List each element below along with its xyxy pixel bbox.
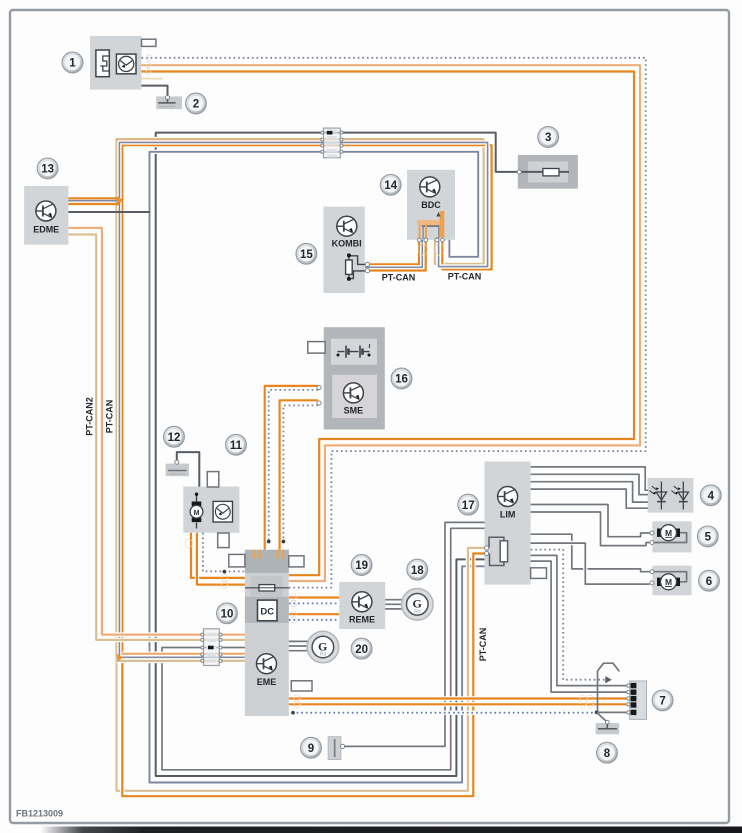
component 10/EME complex (229, 550, 312, 716)
wire: orange main rail LIM resistor around bottom-left-top-BDC (122, 145, 491, 796)
component 13 EDME box (24, 186, 68, 245)
svg-text:12: 12 (168, 432, 181, 444)
component 1 box (charge socket module) (90, 36, 156, 90)
badge 11 (226, 434, 247, 455)
junction arrow on left bundle (117, 654, 123, 662)
badge 4 (700, 485, 721, 506)
svg-text:19: 19 (355, 560, 368, 572)
badge 7 (652, 690, 673, 711)
motor5 icon + loop (650, 525, 687, 545)
comp11 motor icon (190, 493, 203, 529)
svg-text:4: 4 (708, 491, 715, 503)
component 6 motor box (652, 566, 691, 596)
svg-text:SME: SME (344, 406, 364, 416)
wire: dot to ground8 (597, 712, 629, 721)
component 11 box (183, 472, 239, 548)
svg-text:KOMBI: KOMBI (332, 239, 362, 249)
svg-text:15: 15 (300, 249, 313, 261)
badge 9 (301, 737, 322, 758)
wire: tan rail LIM resistor around bottom-left-top-BDC (117, 139, 485, 791)
wire: big loop orange inner (142, 72, 635, 576)
svg-text:7: 7 (659, 696, 665, 708)
EME top stubs (254, 550, 283, 559)
comp1 rotation icon (116, 54, 136, 74)
svg-text:8: 8 (604, 748, 611, 760)
badge 16 (391, 368, 412, 389)
ECU icons (36, 201, 56, 221)
badge 10 (217, 603, 238, 624)
comp1 meander icon (96, 50, 109, 77)
svg-text:PT-CAN: PT-CAN (105, 400, 115, 434)
EME DC box (258, 600, 278, 621)
component 16 SME outer box (308, 327, 385, 429)
component 2 ground box (156, 96, 182, 109)
wire: LIM to conn7 pin1 (531, 555, 629, 685)
SME battery symbol (337, 344, 371, 358)
svg-text:1: 1 (69, 58, 76, 70)
svg-text:PT-CAN2: PT-CAN2 (85, 397, 95, 436)
fuse3 internals (543, 169, 559, 176)
svg-text:BDC: BDC (421, 200, 441, 210)
wire: conn7 flap switch (598, 663, 620, 712)
wire: REME rows (289, 595, 339, 599)
wire: slate rail EME-conn10-left-top-BDC (119, 142, 487, 657)
wire: LIM to conn7 pin2 (531, 561, 629, 692)
comp4 diodes (650, 482, 689, 510)
wire: LIM dotted to flap arrow (531, 550, 607, 680)
svg-text:20: 20 (355, 644, 368, 656)
LIM resistor (485, 537, 508, 565)
component 5 motor box (652, 521, 691, 552)
connector 10 (201, 629, 222, 666)
svg-text:FB1213009: FB1213009 (16, 809, 63, 819)
svg-text:11: 11 (230, 440, 243, 452)
dashed terminal ellipses (146, 55, 150, 61)
wire: tan branch row to conn10/EME (117, 659, 245, 663)
svg-text:2: 2 (193, 99, 199, 111)
component 4 diode box (647, 478, 693, 513)
svg-text:DC: DC (260, 607, 274, 618)
badge 1 (62, 52, 83, 73)
KOMBI resistor (346, 253, 370, 281)
badge 3 (538, 127, 559, 148)
badge 19 (351, 555, 372, 576)
wire: big loop dotted (comp1 to EME via right side) (142, 58, 646, 588)
svg-text:EME: EME (257, 677, 277, 687)
connector top-center (321, 128, 343, 158)
badge 20 (351, 638, 372, 659)
svg-text:LIM: LIM (500, 510, 516, 520)
wire: comp11 dotted down to EME (203, 533, 245, 572)
svg-text:13: 13 (41, 164, 54, 176)
badge 18 (407, 559, 428, 580)
badge 2 (186, 93, 207, 114)
wire: comp11 orange pair down to EME (191, 533, 245, 578)
wire: SME pair 1 (265, 386, 318, 550)
wire: EDME dark to blue rail (68, 211, 150, 213)
svg-text:6: 6 (706, 576, 712, 588)
wire: LIM to motor5 t2 (531, 512, 650, 546)
wire: fuse3 link (518, 171, 569, 173)
motor6 icon + loop (650, 570, 687, 590)
svg-text:9: 9 (308, 743, 314, 755)
wire: BDC left group to KOMBI (367, 240, 419, 265)
svg-text:M: M (194, 510, 200, 517)
wire: SME pair 2 (280, 400, 318, 550)
badge 13 (37, 158, 58, 179)
badge 17 (458, 494, 479, 515)
svg-text:EDME: EDME (33, 225, 59, 235)
svg-text:18: 18 (411, 565, 424, 577)
wire: orange branch row to conn10/EME (122, 652, 245, 656)
badge 6 (699, 570, 720, 591)
wire: comp12 to comp11 (177, 452, 200, 487)
svg-text:17: 17 (462, 500, 475, 512)
generators (402, 589, 434, 621)
SME left tab (308, 342, 325, 354)
badge 12 (164, 426, 185, 447)
wire: EME orange pair to conn7 (289, 696, 629, 700)
EME fuse (245, 585, 289, 591)
component 7 connector body (630, 681, 647, 719)
bottom black bar (40, 827, 742, 833)
svg-text:REME: REME (349, 615, 375, 625)
svg-text:PT-CAN: PT-CAN (448, 272, 482, 282)
BDC internal gateway (417, 211, 444, 242)
svg-text:3: 3 (545, 132, 551, 144)
wire: EME to G20 (289, 641, 309, 650)
wire: REME to G18 (385, 600, 404, 609)
wire: EDME trio to junction (68, 197, 118, 199)
svg-text:16: 16 (395, 374, 408, 386)
comp1 top tab (142, 39, 156, 46)
wire: EDME tan PT-CAN2 (68, 235, 245, 640)
wire: LIM to motor6 t1 (531, 534, 650, 572)
comp11 actuator icon (213, 501, 232, 522)
wire: big loop orange outer (142, 65, 641, 581)
badge 8 (597, 742, 618, 763)
svg-text:10: 10 (221, 609, 234, 621)
component 14 BDC box (407, 170, 455, 240)
wire: comp1 to comp2 ground (142, 86, 168, 97)
wire: LIM to motor6 t2 (531, 543, 650, 584)
wire: dark rail LIM-bottom-left-top-fuse3 (156, 133, 518, 776)
component 15 KOMBI box (323, 207, 364, 293)
component 8 ground box (596, 723, 620, 734)
wire: gray rail LIM to comp9 (343, 522, 485, 746)
svg-text:5: 5 (705, 532, 712, 544)
wire: blue rail LIM-bottom-left-top-BDC (150, 152, 485, 783)
badge 14 (380, 174, 401, 195)
badge 15 (296, 243, 317, 264)
badge 5 (697, 526, 718, 547)
comp9 terminal (340, 744, 344, 748)
wire: blue dotted bottom long (292, 711, 597, 715)
wire: EDME salmon PT-CAN (68, 228, 245, 635)
component 3 fuse box (518, 155, 578, 189)
component 9 aerial box (328, 737, 341, 760)
wire: LIM to motor5 t1 (531, 505, 650, 537)
svg-text:PT-CAN: PT-CAN (478, 628, 488, 662)
conn7 pins (627, 683, 637, 715)
wire: comp1 faint stub (142, 78, 164, 80)
svg-text:14: 14 (384, 180, 397, 192)
svg-text:PT-CAN: PT-CAN (382, 273, 416, 283)
component 19 REME box (339, 582, 385, 629)
wire: gray rail LIM-bottom-left-conn10-EME (162, 528, 485, 770)
wire: LIM to comp4 diodes (4x) (531, 467, 648, 490)
component 17 LIM box (485, 462, 547, 585)
component 12 ground box (166, 464, 189, 477)
